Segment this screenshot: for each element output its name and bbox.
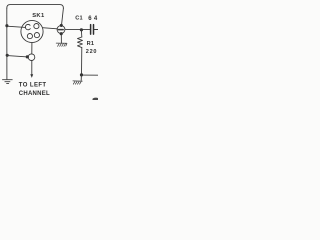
wire top rail: [7, 5, 64, 9]
coax connector body: [57, 26, 65, 34]
wire to chassis ground bottom: [80, 75, 82, 80]
arrow to left channel: [30, 74, 33, 78]
socket SK1 pin top-right: [34, 24, 39, 29]
wire R1 top lead: [80, 30, 82, 37]
plug P1 body: [28, 54, 35, 61]
ground chassis middle: [56, 43, 67, 46]
socket SK1 pin bottom-right: [34, 33, 39, 38]
node dot connector bottom: [60, 32, 63, 35]
svg-text:R1: R1: [87, 41, 95, 47]
socket SK1 body: [21, 20, 43, 42]
node junction at R1 top: [80, 28, 83, 31]
wire left rail: [6, 8, 8, 79]
ground left: [3, 80, 13, 84]
wire SK1 to coax connector: [42, 28, 57, 29]
wire R1 bottom lead: [81, 48, 83, 75]
wire connector to C1: [65, 28, 90, 30]
svg-text:220: 220: [86, 49, 97, 55]
svg-text:TO LEFT: TO LEFT: [19, 83, 47, 89]
wire connector to chassis ground: [60, 34, 62, 43]
node junction at R1 bottom: [80, 73, 83, 76]
node junction on left rail to plug: [6, 54, 9, 57]
svg-text:64: 64: [88, 16, 98, 22]
capacitor C1 plates: [91, 25, 94, 34]
resistor R1 zigzag: [78, 37, 83, 48]
svg-text:C1: C1: [75, 15, 83, 21]
stray ink bottom right corner: [92, 98, 99, 101]
socket SK1 pin bottom-left: [27, 34, 32, 39]
node dot connector top: [60, 24, 63, 27]
wire left rail to plug: [7, 56, 26, 57]
wire right drop to connector: [62, 8, 64, 25]
svg-text:CHANNEL: CHANNEL: [19, 91, 50, 97]
wire plug down: [31, 61, 33, 75]
socket SK1 pin top-left: [25, 24, 30, 29]
wire left rail to SK1 pin: [7, 26, 26, 27]
coax connector centre pin: [58, 29, 63, 31]
node dot at plug: [26, 55, 29, 58]
node junction on left rail to SK1: [5, 24, 8, 27]
wire R1 bottom to right edge: [82, 74, 99, 76]
svg-text:SK1: SK1: [32, 13, 45, 19]
ground chassis bottom right: [73, 81, 82, 84]
wire C1 to right edge: [94, 29, 98, 31]
wire SK1 bottom to plug: [31, 43, 33, 54]
